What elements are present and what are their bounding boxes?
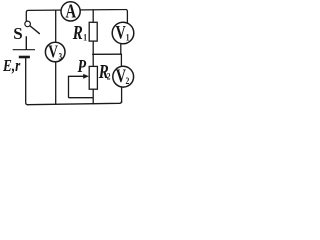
wire V1 bottom (120, 43, 122, 54)
wire top rail (26, 9, 127, 23)
wire V2 to bottom rail (121, 87, 123, 102)
svg-text:2: 2 (107, 71, 111, 82)
voltmeter V1 (112, 22, 134, 44)
voltmeter V2 (113, 65, 134, 87)
svg-text:1: 1 (83, 32, 87, 43)
svg-text:E,r: E,r (2, 56, 21, 75)
label R2 (98, 60, 111, 83)
voltmeter V3 (45, 42, 65, 62)
wire battery to bottom-left corner (26, 58, 28, 105)
battery E,r (13, 50, 35, 57)
svg-text:V: V (48, 43, 58, 62)
wire wiper return (69, 76, 94, 97)
svg-text:3: 3 (59, 52, 63, 62)
wire R2 bottom (92, 89, 94, 104)
svg-text:1: 1 (126, 32, 130, 43)
wire V3 branch upper (55, 10, 57, 42)
wire R1 top (92, 10, 94, 23)
wire V3 branch lower (55, 62, 57, 105)
rheostat R2 (89, 66, 97, 89)
wire middle node rail (93, 53, 122, 55)
svg-text:S: S (13, 24, 22, 43)
label R1 (72, 21, 87, 44)
resistor R1 (89, 22, 97, 41)
svg-text:P: P (77, 58, 87, 77)
wire bottom rail (28, 101, 122, 104)
ammeter A (61, 1, 80, 22)
svg-text:2: 2 (126, 75, 130, 86)
wire R1 bottom to R2 top (92, 41, 94, 66)
svg-text:R: R (72, 21, 83, 44)
wire V2 top (120, 54, 122, 66)
wiper P arrow (69, 74, 89, 79)
svg-text:V: V (116, 22, 126, 43)
switch S (25, 21, 40, 49)
svg-text:A: A (66, 1, 77, 22)
svg-text:V: V (116, 65, 126, 86)
